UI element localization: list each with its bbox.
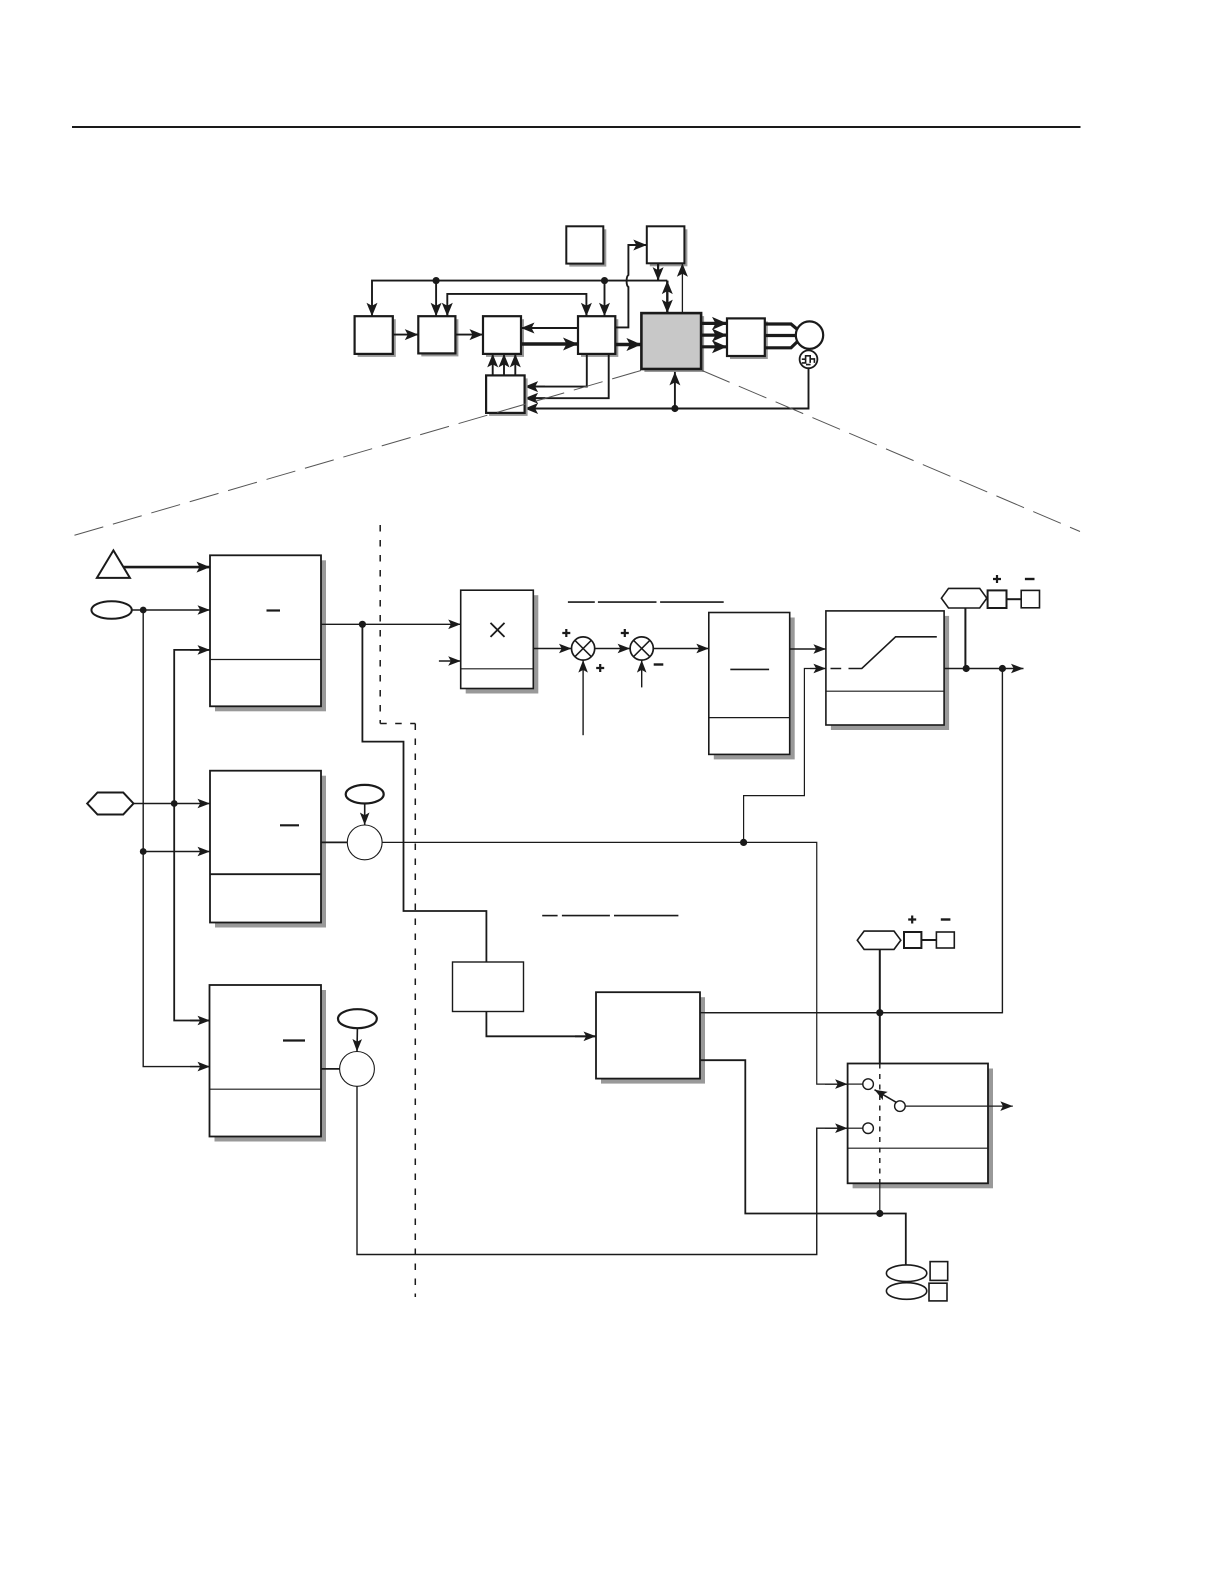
box F (filter) [727, 318, 768, 359]
wire: bus dot down into box B [435, 281, 437, 317]
status square 2 [929, 1283, 947, 1301]
box C [483, 316, 524, 357]
wire: multiplier output to sum1 [533, 648, 571, 650]
junction dot on ellipse line [140, 607, 147, 614]
summing point 2 [630, 637, 653, 660]
dash heading row 1 [568, 601, 724, 603]
junction dot on feedback line [671, 405, 678, 412]
wire: circle2 long output to switch input1 [382, 842, 847, 1084]
encoder circle [800, 350, 818, 368]
PI controller block [709, 613, 795, 760]
wire: bus from box T2 down-feed to boxes A,B,D [372, 281, 667, 317]
wire: box D bottom to box E input 2 [525, 354, 609, 398]
status ellipse 1 [886, 1265, 926, 1282]
dash heading row 2 [542, 915, 678, 917]
wire: double arrow between bus and grey block [666, 281, 668, 314]
wire: feedback from limiter output down to block6 level [700, 669, 1002, 1017]
status square 1 [930, 1262, 948, 1281]
block3 (current path) [210, 985, 327, 1142]
wire: three arrows box E up into box C [493, 354, 516, 376]
box A [355, 316, 396, 357]
wire: up arrow from grey block to box T2 [681, 263, 683, 313]
hexagon code 2 with plus minus boxes [941, 575, 1039, 608]
ellipse code 2 above circle [346, 785, 384, 804]
wire: bus dot down into box D [604, 281, 606, 317]
wire: switch output arrow [905, 1105, 1013, 1107]
wire: circle3 down and right to switch input2 [357, 1086, 848, 1254]
junction dot below switch block [876, 1210, 883, 1217]
small box (scaling) [453, 962, 524, 1012]
wire: limiter output with junction dots [944, 665, 1023, 672]
input symbol: ramp triangle [97, 550, 130, 578]
grey power block [641, 313, 704, 372]
wire: branch from block1 output down to small box [362, 624, 486, 962]
page header rule [72, 126, 1081, 128]
wire: PI output to limiter [790, 648, 826, 650]
wire: block6 output2 down to status ellipses [700, 1060, 906, 1264]
hexagon code 3 with plus minus boxes [857, 916, 954, 950]
wire: arrow A to B [393, 334, 419, 336]
ellipse code 3 above circle [338, 1009, 377, 1028]
dashed separator line with jog [380, 525, 415, 1297]
box T1 (isolated top box) [566, 226, 606, 266]
wire: sum2 to PI controller block [653, 648, 709, 650]
wire: three thick lines box F to motor [765, 324, 798, 348]
block6 (motor model) [596, 992, 705, 1083]
multiplier block [461, 590, 539, 693]
plus sign sum1 upper [562, 629, 570, 637]
box E (feedback processing) [486, 375, 527, 416]
wire: second link line with arrows into B and D [447, 294, 586, 316]
wire: stub from block edge to contact circle 1 [848, 1083, 863, 1085]
wire: thick arrow triangle to block1 input1 [123, 566, 210, 569]
wire: hexagon3 vertical down to switch block [879, 949, 881, 1063]
wire: vertical from ellipse dot down to block2 input2 and block3 input2 [140, 610, 210, 1067]
dashed zoom indicator line right [702, 371, 1080, 532]
wire: ellipse to block1 input2 [132, 609, 210, 611]
wire: up arrow from feedback dot into grey block bottom [674, 372, 676, 409]
wire: sum1 to sum2 [595, 648, 630, 650]
wire: small box output to block6 [486, 1012, 596, 1037]
plus sign sum1 lower input [596, 664, 604, 672]
wire: encoder feedback down and left into box E [525, 368, 809, 408]
switch common circle [895, 1101, 906, 1112]
summing point 1 [572, 637, 595, 660]
wire: block3 output to monitor circle 3 [321, 1068, 340, 1070]
junction dot on circle2 output [740, 839, 747, 846]
box T2 (comm module box) [647, 226, 688, 266]
wire: thick arrow D to grey power block [615, 343, 641, 346]
switch contact circle 2 [863, 1123, 874, 1134]
wire: hexagon2 vertical to limiter output dot [964, 608, 966, 669]
minus sign sum2 lower input [654, 663, 664, 665]
switch contact circle 1 [863, 1079, 874, 1090]
wire: hexagon to block2 input1 [134, 803, 211, 805]
block1 (setpoint conditioning) [210, 555, 326, 711]
wire: box D bottom to box E input 1 [525, 354, 587, 387]
block2 (torque path) [210, 771, 326, 928]
wire: vertical from hexagon dot down to block3 input1 [174, 804, 210, 1021]
wire: branch up from circle2 output to limiter input2 [744, 669, 826, 843]
status ellipse 2 [886, 1283, 926, 1300]
dashed control line inside switch block [879, 1064, 881, 1184]
wire: loop from box D right side up into box T2 with jog over bus [615, 245, 647, 327]
plus sign sum2 upper [621, 629, 629, 637]
motor circle M [796, 321, 823, 348]
wire: stub arrow into multiplier input2 [439, 660, 461, 662]
junction dot on bus above box D [601, 277, 608, 284]
wire: down arrow from box T2 to bus [657, 263, 659, 280]
wire: switch control line below block to junction [879, 1183, 881, 1213]
limiter block with saturation curve [826, 611, 949, 730]
wire: vertical from hexagon dot up to block1 input3 [174, 650, 210, 804]
wire: block6 output1 to feedback line [700, 1012, 1002, 1014]
wire: arrow ellipse2 into circle2 [364, 804, 366, 826]
wire: thin arrow D to C [521, 327, 578, 329]
wire: block2 output to monitor circle 2 [321, 841, 347, 843]
wire: vertical stub arrow into sum1 bottom [582, 660, 584, 735]
switch block [848, 1064, 993, 1189]
junction dot on hexagon line [171, 800, 178, 807]
wire: three thick arrows grey block to box F [701, 323, 727, 346]
wire: thick arrow C to D [521, 342, 578, 345]
dashed zoom indicator line left [72, 371, 641, 537]
box B [418, 316, 458, 356]
monitor circle 2 [347, 825, 382, 860]
wire: arrow B to C [455, 334, 483, 336]
box D [578, 316, 618, 357]
input symbol: hexagon code [87, 793, 133, 815]
wire: vertical stub arrow into sum2 bottom [641, 660, 643, 687]
junction dot on bus above box B [433, 277, 440, 284]
junction dot on block1 output [359, 621, 366, 628]
wire: arrow ellipse3 into circle3 [356, 1028, 358, 1051]
input symbol: ellipse code [91, 601, 131, 619]
wire: block1 output to multiplier block [321, 623, 461, 625]
monitor circle 3 [340, 1052, 375, 1087]
wire: stub from block edge to contact circle 2 [848, 1127, 863, 1129]
switch lever arrow [875, 1090, 897, 1103]
